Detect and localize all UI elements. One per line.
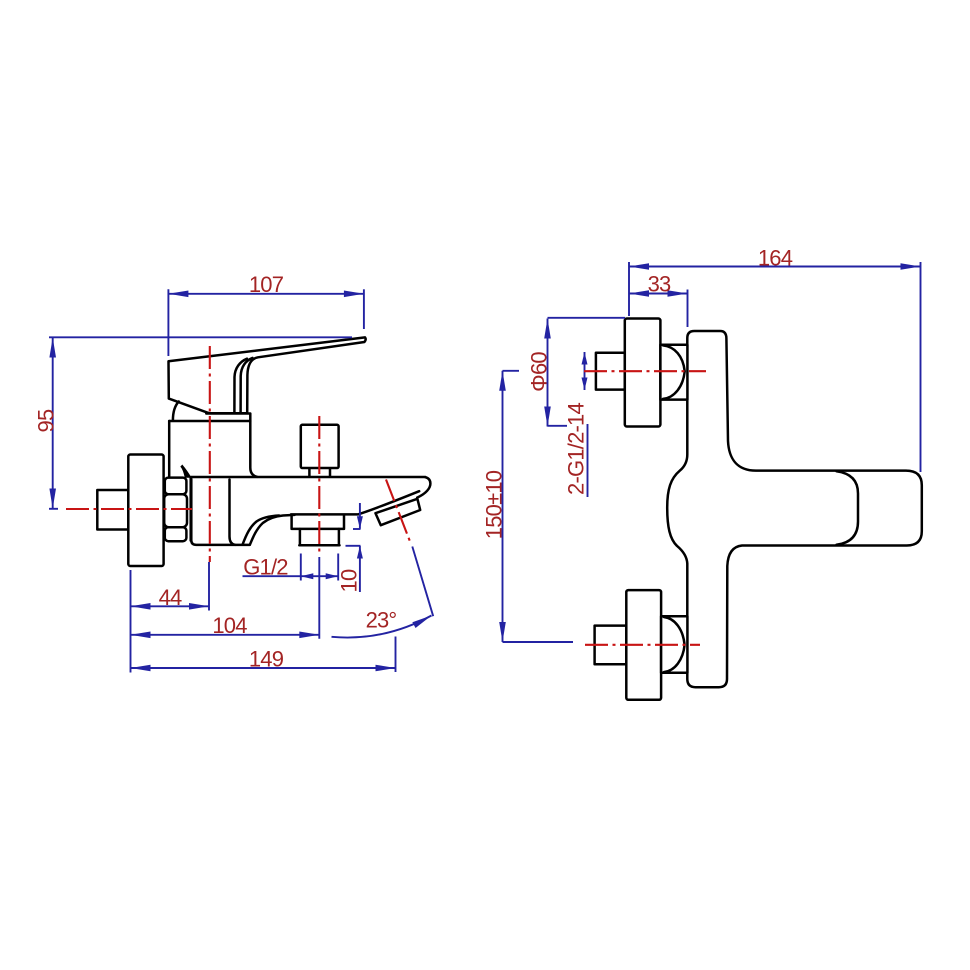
dim 23 degrees [332,547,434,638]
top wall stub (front view) [596,353,625,390]
cartridge ring [206,413,250,421]
centerline handle axis [209,346,211,562]
dim 150 plus-minus 10 [482,371,574,642]
svg-text:150±10: 150±10 [482,470,507,539]
top flange (front view) [625,319,661,427]
diverter bell outlet below spout [292,515,344,545]
dim G1/2 [243,554,339,581]
centerline wall axis [66,508,192,510]
centerline diverter axis [318,416,320,556]
wall stub (left view) [97,490,128,530]
handle lever [169,337,366,420]
dim 33 [629,272,688,328]
dim 104 [131,557,320,639]
bottom wall stub (front view) [595,626,627,665]
svg-text:23°: 23° [366,608,397,633]
spout under-sheath S-curves [243,515,295,545]
body lower section [191,479,249,545]
dim 44 [131,562,210,673]
dim 10 [337,503,362,592]
svg-text:Φ60: Φ60 [527,352,552,392]
hex nut (left view) [164,478,191,542]
svg-text:95: 95 [34,409,59,432]
centerline bottom connector [585,644,700,646]
flag notch above spout [181,465,191,477]
faucet body front view silhouette [667,331,922,687]
dim 164 [629,246,921,473]
bottom flange (front view) [626,590,661,700]
dim 149 [131,637,396,673]
faucet body block [169,421,257,477]
diverter knob [301,425,339,476]
aerator at spout tip [376,499,421,525]
dim 95 [34,337,353,509]
bottom hex nut (front view) [661,616,687,673]
dim phi60 [527,318,626,427]
top hex nut (front view) [660,345,687,400]
svg-text:G1/2: G1/2 [243,555,288,580]
centerline top connector [584,370,706,372]
wall flange (left view) [128,455,163,567]
svg-text:44: 44 [159,585,182,610]
centerline aerator axis [386,480,411,544]
spout tip corner and face [417,477,430,497]
svg-text:149: 149 [249,647,284,672]
svg-text:10: 10 [337,569,362,592]
svg-text:2-G1/2-14: 2-G1/2-14 [564,403,589,495]
svg-text:33: 33 [648,272,671,297]
handle end-cap inner line [837,471,859,545]
spout underside lines [291,491,419,514]
dim 107 [168,272,364,356]
dim stub thread 2-G1/2-14 [564,352,589,497]
svg-text:107: 107 [249,272,284,297]
svg-text:104: 104 [212,613,247,638]
svg-text:164: 164 [758,246,793,271]
spout top edge (thick) [191,476,426,479]
